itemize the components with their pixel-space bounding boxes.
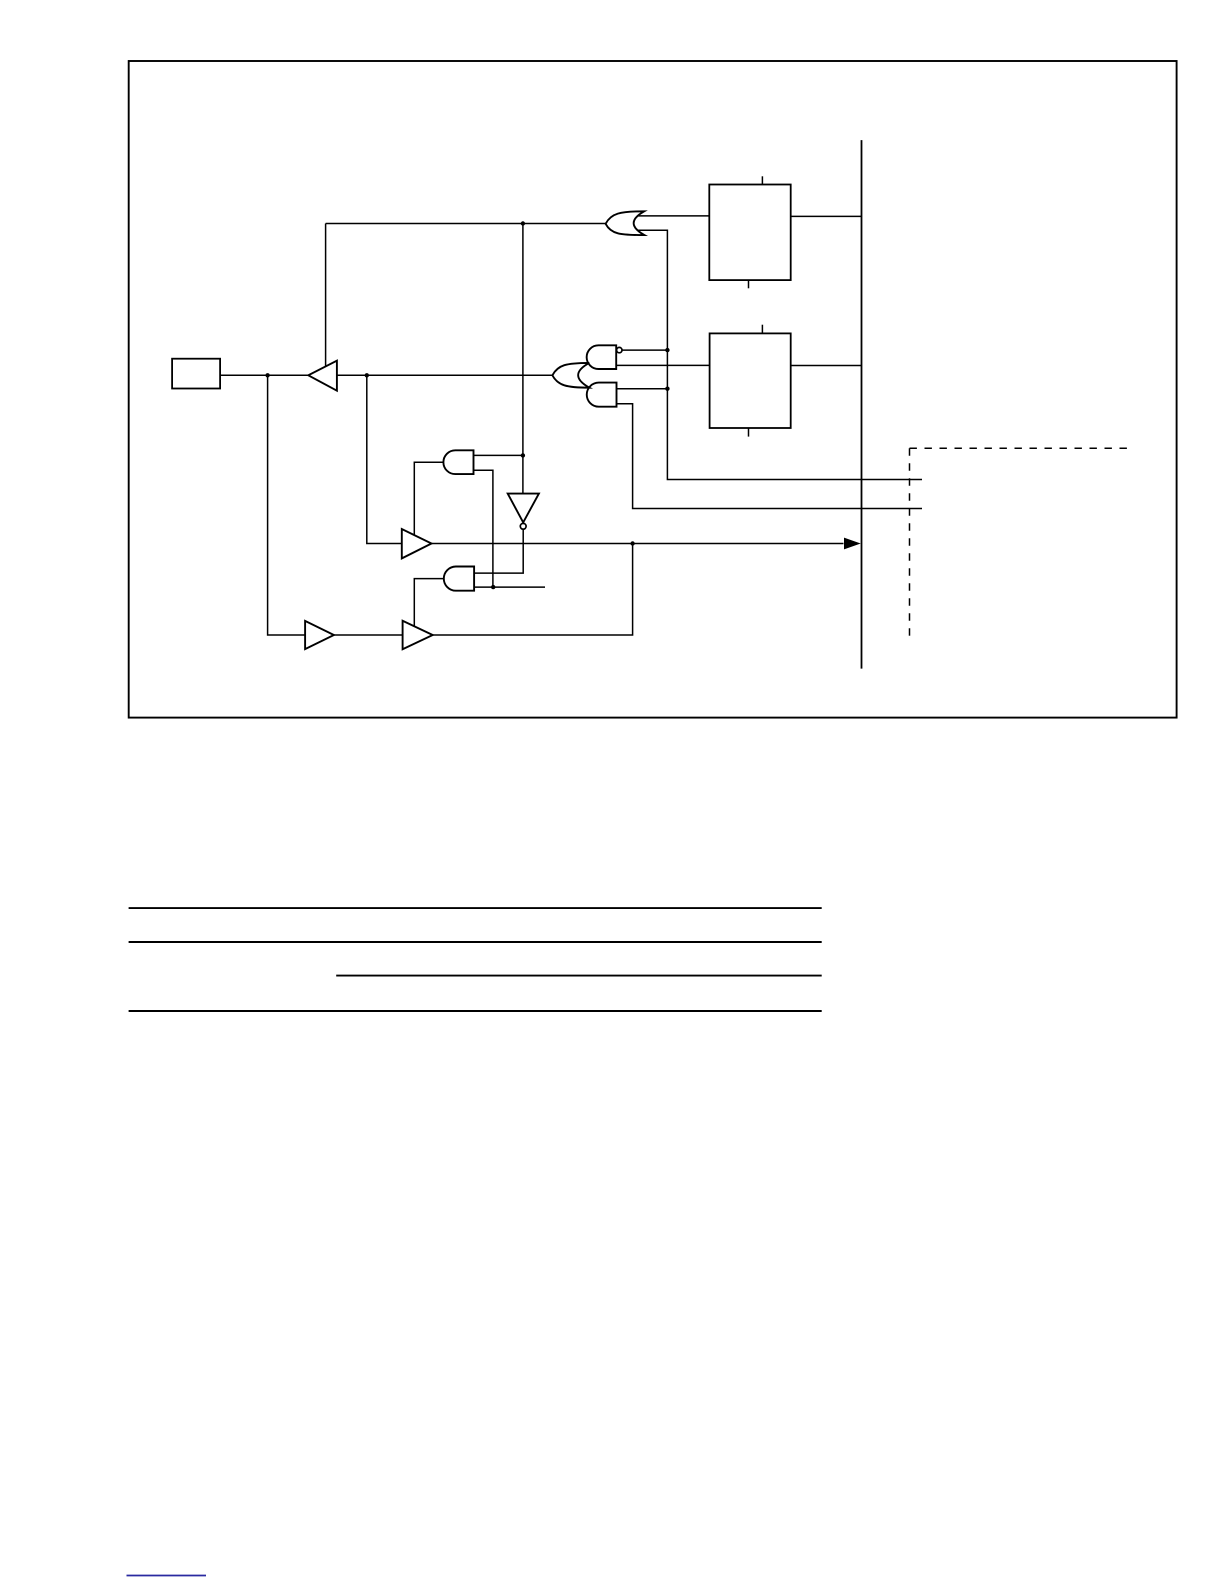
inverter/OR1 (mirrored OR, tip left) (606, 211, 645, 235)
junction node 1 (265, 373, 269, 377)
wire: buffer A1 input from OR2 output tip (337, 374, 553, 376)
table rule 1 (129, 907, 822, 909)
wire: NAND lower output to divider block 2 (616, 364, 709, 366)
frame border of logic diagram (129, 61, 1177, 718)
junction node 5 (665, 348, 669, 352)
junction node 3 (521, 221, 525, 225)
junction node 4 (521, 453, 525, 457)
junction node 7 (630, 541, 634, 545)
table rule 4 (129, 1010, 822, 1012)
wire: buffer chain output loop up to arrow line (334, 634, 403, 636)
buffer A3 (right pointing) (305, 621, 334, 649)
OR2 (mirrored OR, tip left) in cluster (552, 363, 589, 388)
wire: feedback drop to buffer A1 top (325, 224, 327, 367)
wire: OR1 top input to divider block 1 (637, 215, 709, 217)
wire: AND1 bottom input down to node 8 (474, 470, 493, 587)
junction node 6 (665, 387, 669, 391)
block 2 bottom tick (748, 428, 750, 437)
block 1 top tick (761, 176, 763, 184)
wire: NAND bubble to vertical net (622, 349, 667, 351)
buffer A2 (right pointing) (402, 529, 432, 558)
buffer A1 (left pointing) (308, 361, 337, 391)
junction node 2 (365, 373, 369, 377)
NAND gate (mirrored AND with input bubble) (587, 345, 617, 369)
wire: AND2 bottom input stub (474, 586, 545, 588)
junction node 8 (491, 585, 495, 589)
wire: AND2 output to buffer A4 slant (414, 579, 444, 627)
wire: AND3 top input to vertical net (617, 388, 668, 390)
footer link underline (127, 1575, 207, 1577)
inverter pointing down (508, 494, 539, 523)
bubble on inverter (520, 523, 526, 529)
table rule 3 (partial) (336, 975, 822, 977)
block 2 top tick (761, 325, 763, 334)
wire: AND1 top input junction (474, 454, 523, 456)
wire: node line from NAND cluster bottom to right (617, 404, 923, 509)
wire: node 2 drop to buffer A2 input (367, 375, 402, 543)
wire: divider block 2 output to bus (791, 365, 862, 367)
wire: vertical from OR1 output junction down to AND1 and inverter (522, 224, 524, 494)
dashed box top edge (910, 447, 1132, 449)
divider block 2 (710, 333, 791, 428)
buffer A4 (right pointing) (403, 621, 433, 649)
block 1 bottom tick (748, 280, 750, 288)
table rule 2 (129, 941, 822, 943)
AND3 (mirrored AND) in cluster (587, 383, 617, 407)
bus vertical line (861, 140, 863, 669)
dashed box left edge (909, 448, 911, 637)
wire: divider block 1 output to bus (791, 215, 862, 217)
wire: pin to buffer A1 (220, 374, 308, 376)
bubble on NAND (617, 347, 622, 352)
arrowhead on bus (844, 538, 861, 550)
wire: AND1 output to buffer A2 slant (414, 462, 443, 535)
pin box OSC IN (172, 359, 220, 389)
wire: inverter output to AND2 top input (474, 529, 523, 573)
wire: arrow line from buffer A2 to bus (432, 543, 844, 545)
wire: node 1 drop to bottom buffer chain (268, 375, 306, 635)
wire: OR1 bottom input right then down net (637, 230, 922, 479)
divider block 1 (709, 185, 790, 281)
wire: OR1 output feedback left run (326, 223, 606, 225)
AND2 (mirrored AND) (444, 567, 474, 591)
AND1 (mirrored AND) (443, 450, 473, 474)
